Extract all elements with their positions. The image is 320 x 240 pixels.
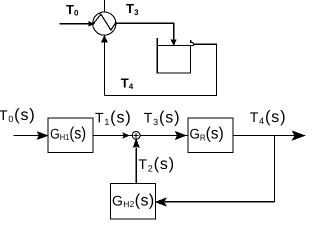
svg-text:T1(s): T1(s)	[95, 108, 132, 126]
svg-text:GH2(s): GH2(s)	[112, 191, 155, 209]
block GH1	[48, 118, 93, 152]
wire: input arrow to GH1	[14, 135, 40, 137]
arrowhead into exchanger bottom	[102, 36, 108, 42]
wire: tank outlet recycle loop	[104, 44, 216, 95]
wire: summing junction to GR	[140, 135, 177, 137]
arrowhead into GH1	[37, 132, 47, 139]
svg-text:GR(s): GR(s)	[190, 125, 224, 143]
heat exchanger E1	[93, 12, 116, 35]
wire: recycle stub at exchanger bottom	[103, 37, 105, 95]
wire: steam stub at exchanger top	[103, 0, 105, 12]
block GR	[188, 118, 233, 152]
wire: inlet T0 into exchanger	[60, 23, 90, 25]
arrowhead into summing junction bottom	[133, 139, 139, 147]
arrowhead into summing junction left	[123, 133, 129, 138]
svg-text:T4: T4	[121, 75, 134, 91]
svg-text:T2(s): T2(s)	[138, 155, 175, 173]
svg-text:T4(s): T4(s)	[250, 108, 287, 126]
svg-text:T3(s): T3(s)	[144, 109, 181, 127]
arrowhead into exchanger left	[89, 22, 94, 26]
wire: feedback bottom to GH2	[165, 201, 274, 203]
tank outlet notch	[191, 40, 193, 44]
arrowhead into tank	[171, 40, 176, 45]
tank vessel	[157, 38, 194, 73]
wire: feedback branch down	[273, 136, 275, 202]
svg-text:T0: T0	[66, 2, 79, 18]
summing junction S1	[132, 132, 140, 140]
wire: GH1 to summing junction	[93, 135, 124, 137]
wire: GH2 up to summing junction	[135, 148, 137, 184]
block GH2	[111, 184, 156, 219]
wire: exchanger outlet T3 to tank	[116, 23, 174, 39]
arrowhead into GR	[176, 132, 186, 140]
wire: GR output T4	[233, 135, 295, 137]
arrowhead output right	[293, 131, 305, 140]
svg-text:T3: T3	[126, 1, 139, 17]
svg-text:GH1(s): GH1(s)	[50, 124, 86, 142]
arrowhead into GH2 right	[156, 198, 166, 206]
svg-text:T0(s): T0(s)	[0, 106, 36, 124]
